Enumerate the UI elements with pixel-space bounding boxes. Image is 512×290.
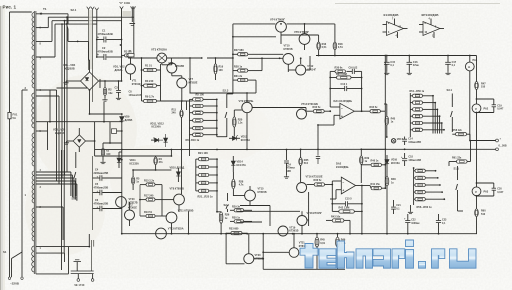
svg-text:Рис. 1: Рис. 1 [3,5,17,10]
capacitor C14 [404,137,406,140]
capacitor C20 [477,182,494,184]
resistor ladder R56-R60 [415,169,425,172]
wire base y58.3 [248,57,283,59]
resistor box top-left [128,54,134,57]
resistor R46b [336,237,340,247]
svg-text:КТ361Б: КТ361Б [289,230,298,233]
svg-text:0...50В: 0...50В [499,145,507,148]
svg-text:0,047: 0,047 [497,191,504,194]
wire horizontal bus into bridge [57,87,88,89]
wire mains vertical from fuse [9,12,11,112]
meter PA3 [472,187,481,196]
svg-text:1,1к: 1,1к [238,122,243,125]
wire x50 vertical [49,90,51,122]
resistor R26v [219,212,223,224]
svg-text:R36 5к: R36 5к [314,179,323,182]
wire DA2 loop to rail [361,211,363,233]
wire mid vertical to rail [188,211,190,233]
svg-text:С15 5: С15 5 [345,197,352,200]
svg-text:R43 10к: R43 10к [331,215,341,218]
wire misc right [407,228,409,234]
svg-text:0,047: 0,047 [497,108,504,111]
svg-text:VD1, VD2: VD1, VD2 [113,65,125,69]
resistor R11 [180,110,183,118]
svg-text:R56...R60 1к: R56...R60 1к [417,205,433,209]
transformer T1 windings [32,13,34,51]
svg-text:47мк: 47мк [413,64,420,67]
meter PV1 [465,62,474,71]
svg-text:0,51: 0,51 [338,46,343,49]
svg-text:S2.1: S2.1 [71,8,77,12]
meter PA2 [472,104,481,113]
svg-text:DA2: DA2 [336,161,342,165]
junction dots [120,44,122,46]
svg-text:КЦ405А: КЦ405А [55,131,65,135]
terminal ~220V [8,277,10,279]
svg-text:+: + [97,189,99,193]
wire y143 [103,142,122,144]
zener VD14 [231,161,235,165]
wire vt12 connections [288,69,295,71]
svg-text:R34 5к: R34 5к [370,106,379,109]
resistor R48 [385,177,389,186]
svg-text:S1: S1 [3,250,7,254]
transistor VT5 [167,63,177,73]
ground under R2 [104,98,106,100]
svg-text:КС147А: КС147А [237,164,246,167]
wire VT7 collector down [186,101,188,110]
stub box left [117,130,122,132]
wire x226 down [225,234,227,264]
wire vt8 base [162,199,174,201]
svg-text:+: + [341,114,343,118]
wire staircase nest top-left [36,27,48,29]
ground under C3 [118,97,120,99]
resistor R16 [317,42,321,50]
svg-text:С9 0,02: С9 0,02 [349,66,358,69]
ground bridge left [65,81,67,83]
svg-text:R61 22к: R61 22к [452,156,462,159]
wire output row1 [470,140,496,142]
wire tap10 to S2.1 [36,13,68,15]
svg-text:R29 3к: R29 3к [232,205,241,208]
transistor VT13 [156,228,167,239]
wire rail y58 [134,57,157,59]
capacitor С15 [386,56,388,63]
resistor R45b [315,237,319,247]
svg-text:510: 510 [304,162,309,165]
transistor VT1 [126,64,136,74]
resistor R39 [360,156,363,165]
wire rail y24.8 [233,23,276,25]
resistor R16v [214,64,217,74]
svg-text:FU1: FU1 [13,113,18,117]
svg-text:+: + [97,205,99,209]
svg-text:100мкх25В: 100мкх25В [408,141,421,144]
svg-text:КТ815В: КТ815В [175,65,184,68]
svg-text:VT13 КТ825А: VT13 КТ825А [168,228,184,231]
resistor R2b [101,148,104,156]
svg-text:КТ815В: КТ815В [284,48,293,51]
svg-text:R41 15к: R41 15к [371,183,381,186]
svg-text:R17 240: R17 240 [144,195,154,198]
svg-text:~220В: ~220В [10,282,20,286]
wire bridge bottom down [89,90,91,114]
svg-text:R3 240: R3 240 [145,79,154,83]
wire bottom rail [122,233,477,235]
svg-text:КС156А: КС156А [152,126,161,129]
transistor VT20a [116,197,127,208]
svg-text:R31 1,8М: R31 1,8М [336,73,347,76]
svg-text:R13 51: R13 51 [144,211,153,214]
svg-text:С1: С1 [102,29,106,33]
transistor VT19 [278,226,288,236]
capacitor C3 [116,89,121,91]
svg-text:R51...R56 1к: R51...R56 1к [410,90,425,93]
transformer T2 [71,270,94,272]
wire VT9 emitter down [246,118,248,149]
switch S1 [21,250,23,252]
svg-text:R33 680: R33 680 [229,228,239,231]
capacitor C12 [317,149,319,155]
wire lower bus [262,234,264,270]
svg-text:S2.3: S2.3 [223,89,229,93]
transistor VT12 [296,65,306,75]
svg-text:С2: С2 [102,46,106,50]
svg-text:100: 100 [106,153,111,156]
svg-text:–: – [342,180,344,184]
diode VD9 [120,117,124,122]
svg-text:+: + [97,175,99,179]
resistor R60 [475,209,479,217]
wire right vertical [476,56,478,82]
svg-text:16В: 16В [287,170,292,173]
svg-text:R30 6к: R30 6к [335,66,344,69]
svg-text:510: 510 [481,86,486,89]
svg-text:VT4 КТ808Г: VT4 КТ808Г [270,17,286,21]
wire long vertical pair [88,10,90,71]
wire y149.3 left of DA2 [361,148,384,150]
svg-text:Д226Б: Д226Б [125,119,133,122]
ground right mid [410,211,412,213]
wire VT17 node [301,211,303,215]
wire long rail y149.5 [95,148,362,150]
svg-text:VT3 КТ625А: VT3 КТ625А [151,48,167,52]
transistor VT21 [289,248,299,258]
wire x385 lower continuation [384,111,386,188]
svg-text:DA1 К140УД6Б: DA1 К140УД6Б [334,99,353,103]
wire left pair verticals lower [61,150,63,270]
capacitor C18r [404,153,406,158]
svg-text:КС156А: КС156А [241,139,250,142]
wire rail y55.5 right [316,55,477,57]
wire VT9 emitter to R32 [252,107,306,109]
svg-text:РА2: РА2 [484,108,489,111]
resistor R20 [233,117,237,127]
svg-text:100мкх10В: 100мкх10В [129,94,142,97]
svg-text:V: V [475,107,477,111]
transistor VT7 [177,78,187,88]
resistor ladder R21-R25 [199,157,209,160]
wire x385 vertical [384,56,386,111]
svg-text:4700мкх63В: 4700мкх63В [98,32,113,36]
svg-text:S3.1: S3.1 [447,88,453,92]
node bridge right [99,79,101,88]
wire ladder top bus y93 [190,92,248,94]
svg-text:S1.1: S1.1 [454,167,460,171]
terminal bottom a [77,274,79,279]
svg-text:R30 1к: R30 1к [232,217,241,220]
svg-text:R40 1к: R40 1к [371,160,380,163]
svg-text:VT11 КТ805Б: VT11 КТ805Б [178,209,194,212]
capacitor С17 [447,56,449,63]
watermark tehnari.ru [300,240,476,268]
resistor R4 [154,157,158,165]
wire x286.5 vertical [286,150,288,161]
svg-text:0,1: 0,1 [452,64,456,67]
svg-text:5А: 5А [13,116,16,120]
svg-text:ЧЕ 1740: ЧЕ 1740 [74,283,85,287]
svg-text:4700мкх63В: 4700мкх63В [98,49,113,53]
scan left edge [0,6,1,290]
svg-text:0,1: 0,1 [390,64,394,67]
svg-text:0,01: 0,01 [320,242,325,245]
switch S3.1 [75,152,77,168]
wire R45 top stub [384,103,387,105]
svg-text:К140УД1Б: К140УД1Б [384,13,400,17]
svg-text:R27 680: R27 680 [234,48,244,52]
capacitor C22 [407,218,409,220]
svg-text:V: V [475,190,477,194]
svg-text:R.: R. [129,50,132,53]
svg-text:+: + [342,189,344,193]
svg-text:VT6 КТ808Г: VT6 КТ808Г [294,30,310,34]
wire mains top to transformer [10,11,32,13]
wires lower mid [240,205,270,207]
wire output row2 [361,148,495,150]
resistor R5v [131,177,134,184]
zener VD16 [385,160,389,164]
zener VD13 [232,136,236,140]
svg-text:R31 2к: R31 2к [234,74,243,78]
svg-text:240: 240 [172,112,177,115]
svg-text:R28 1к: R28 1к [234,65,243,69]
wire y81 from bridge [99,80,122,82]
wire vt11 base [162,215,166,217]
svg-text:КТ815В: КТ815В [258,191,267,194]
svg-text:“К” 110В: “К” 110В [119,1,130,5]
svg-text:VD5...VD8: VD5...VD8 [53,128,66,132]
transistor VT11 [166,212,177,223]
svg-text:10к: 10к [108,91,113,95]
wire middle taps bundle y172-184 [36,171,71,173]
svg-text:С10 1: С10 1 [341,83,348,86]
svg-text:КД202В: КД202В [65,67,75,71]
svg-text:R1 51: R1 51 [145,63,152,67]
svg-text:К140УД6Б: К140УД6Б [336,165,349,169]
svg-text:100мкх16В: 100мкх16В [408,159,421,162]
wire DA1 plus input chain [318,124,330,126]
svg-text:R58 12к: R58 12к [453,129,463,132]
resistor R2 [103,87,106,95]
svg-text:100: 100 [219,69,224,72]
svg-text:R9 2,7к: R9 2,7к [145,94,155,98]
diode VD11 [155,138,159,142]
svg-text:R32 5к: R32 5к [313,106,322,109]
wire long horizontal y121.7 [48,121,122,123]
capacitor C23 [438,218,440,220]
resistor R18 [333,42,337,50]
svg-text:–: – [341,106,343,110]
wire vertical x121.8 [121,114,123,116]
wire lower taps [36,206,63,208]
svg-text:КР140УД1Б: КР140УД1Б [422,13,440,17]
svg-text:Т1: Т1 [43,7,47,11]
resistor R47 [475,82,479,90]
wire vt2 collector [129,202,131,210]
svg-text:R42 1,8М: R42 1,8М [339,207,350,210]
svg-text:РА3: РА3 [484,191,489,194]
svg-text:0,51: 0,51 [322,46,327,49]
svg-text:VD10 Д814Д: VD10 Д814Д [170,166,185,169]
diode VD10a [118,152,120,158]
svg-text:1000мк: 1000мк [411,222,420,225]
transistor VT15 [245,190,256,201]
resistor R45 [385,116,389,125]
svg-text:R21 100: R21 100 [198,151,208,155]
svg-text:КС133А: КС133А [130,162,139,165]
ground bridge2 [66,141,68,143]
resistor R28b [232,179,236,189]
wire y101 bus [161,100,187,102]
svg-text:R15 2,2к: R15 2,2к [144,180,155,183]
wire y246 right [88,234,90,247]
wire mid verticals [103,102,105,122]
capacitor C21r [393,200,395,207]
wire y170 lower mid [133,169,156,171]
resistor R35v [299,158,303,166]
terminal bottom b [92,274,94,279]
wire y222 [240,221,262,223]
diode VD12 [164,138,168,142]
transistor VT20 [244,254,254,264]
svg-text:R21...R25 1к: R21...R25 1к [198,194,214,198]
diode VD17 [391,139,395,143]
wire y36.8 [233,36,276,38]
wire switch column [21,90,23,250]
transformer T1 core [33,11,35,274]
feedback box wires DA1 [329,71,331,107]
ground under R2b [102,161,104,163]
svg-text:510: 510 [481,213,486,216]
fuse FU1 [8,112,11,118]
svg-text:4,7к: 4,7к [239,184,244,187]
capacitor C19 [477,98,494,100]
svg-text:Д242Б: Д242Б [115,68,123,72]
svg-text:VT16 КТ3102Е: VT16 КТ3102Е [306,175,323,178]
svg-text:VD1...VD4: VD1...VD4 [63,63,76,67]
svg-text:R6...R10 1к: R6...R10 1к [186,138,200,142]
svg-text:КТ361Е: КТ361Е [132,83,141,86]
svg-text:КС156А: КС156А [391,162,400,165]
svg-text:S3.1: S3.1 [72,197,78,201]
resistor ladder R6-R10 [193,98,204,101]
capacitor С16 [408,56,410,63]
wire y156 [95,155,172,157]
svg-text:РА1: РА1 [473,59,478,62]
wire y90 stub [36,89,50,91]
